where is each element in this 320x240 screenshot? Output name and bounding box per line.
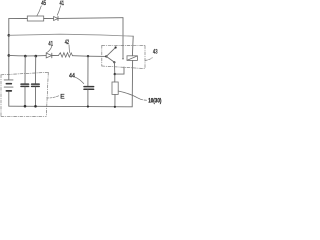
svg-text:10(30): 10(30) [148, 97, 161, 104]
leader line for label 44 [75, 77, 84, 83]
svg-text:42: 42 [65, 39, 70, 46]
capacitor C1 plates [21, 83, 29, 85]
node: junction dot on resistor feed [114, 73, 116, 75]
node: capacitor C1 branch junction [24, 55, 27, 58]
capacitor C2 bottom wire [35, 87, 37, 106]
relay dashed enclosure right edge [144, 46, 146, 69]
wire: vertical down to resistor 10(30) [113, 62, 115, 82]
relay dashed enclosure bottom edge [102, 66, 145, 69]
leader for label 43 [145, 58, 152, 61]
wire: right vertical drop to switch contact [122, 18, 124, 59]
node: bottom bus dot C2 [34, 105, 37, 108]
wire: resistor 45 to diode 41 (top) [44, 17, 54, 19]
capacitor C44 bottom wire [87, 90, 89, 107]
wire: top horizontal diode to right corner [58, 17, 123, 20]
node: capacitor C2 branch junction [35, 55, 38, 58]
svg-text:44: 44 [69, 73, 75, 80]
capacitor C2 top wire [35, 56, 37, 83]
node: capacitor 44 branch junction [87, 55, 89, 57]
battery dashed enclosure E right edge [46, 72, 48, 116]
svg-text:45: 45 [41, 0, 46, 7]
wire: resistor 10(30) to bottom bus [114, 94, 116, 106]
wire: diode to resistor 42 [52, 54, 59, 56]
switch blade (relay contact, open) [106, 47, 115, 56]
diode D41 (bottom) cathode bar [51, 53, 53, 58]
node: switch blade tip dot [115, 46, 117, 48]
relay coil box 43 [127, 56, 137, 61]
wire: battery to bottom bus [8, 92, 10, 106]
wire: coil to bottom bus [131, 60, 133, 106]
leader line for label 41 (bottom) [46, 46, 52, 53]
capacitor C44 top wire [87, 56, 89, 86]
battery dashed enclosure E top edge [1, 72, 48, 75]
resistor 10(30) body [112, 82, 118, 94]
svg-text:41: 41 [48, 41, 53, 48]
wire: resistor 42 to switch pivot [73, 55, 107, 58]
node: junction dot left rail / middle bus [8, 34, 11, 37]
wire: left rail vertical (battery branch) [8, 19, 10, 80]
node: throw contact dot [113, 61, 115, 63]
leader line for label 41 (top) [57, 6, 60, 15]
relay coil box diagonal [127, 56, 137, 60]
capacitor C2 plates [32, 83, 40, 85]
diode D41 (bottom) triangle [46, 53, 52, 58]
resistor R45 body [27, 16, 43, 21]
svg-text:43: 43 [153, 49, 158, 56]
svg-text:41: 41 [60, 0, 65, 7]
wire: top-left horizontal from left rail to resistor 45 [9, 18, 28, 20]
node: switch throw contact dot [122, 58, 123, 59]
node: junction dot left rail / lower bus [8, 54, 11, 57]
wire: bottom bus [9, 105, 132, 108]
leader for label E [47, 96, 59, 98]
node: switch pivot dot [105, 55, 107, 57]
relay dashed enclosure left edge [101, 45, 103, 66]
wire: lower bus to diode 41 (bottom) [9, 54, 46, 57]
diode D41 (top) cathode bar [57, 16, 59, 20]
resistor R42 zigzag [59, 53, 73, 57]
wire: coil feed vertical [131, 36, 134, 56]
relay dashed enclosure 43 top edge [102, 44, 145, 46]
battery positive plate 2 (long) [4, 86, 13, 88]
leader line for label 10(30) [118, 91, 146, 100]
battery positive plate (long) [4, 79, 13, 81]
battery negative plate 2 (short thick) [6, 90, 11, 92]
battery negative plate (short thick) [6, 83, 11, 85]
capacitor C44 plates [84, 86, 94, 88]
capacitor C1 top wire [24, 56, 26, 83]
node: bottom bus dot C1 [24, 105, 27, 108]
node: bottom bus dot resistor [114, 106, 116, 108]
diode D41 (top) triangle [54, 17, 58, 21]
capacitor C1 bottom wire [24, 87, 26, 106]
wire: armature link to relay frame [115, 67, 124, 74]
battery dashed enclosure E bottom edge [1, 115, 46, 117]
battery dashed enclosure E left edge [0, 75, 2, 117]
node: bottom bus dot C44 [87, 105, 89, 107]
switch lower throw link [106, 56, 114, 62]
leader line for label 42 [68, 45, 71, 53]
leader line for label 45 [37, 6, 42, 16]
svg-text:E: E [60, 93, 65, 100]
wire: middle bus (to relay coil) [9, 34, 133, 36]
